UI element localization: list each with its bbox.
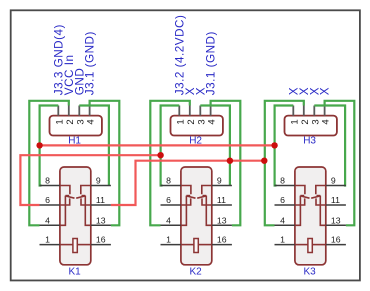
relay K3 pole A contact bar	[300, 195, 304, 197]
svg-text:13: 13	[96, 215, 106, 225]
svg-text:16: 16	[217, 235, 227, 245]
wire net2: K1.6 to H2.1/K2.8	[20, 155, 160, 205]
relay K1 coil leads (pins 1,16)	[60, 244, 73, 246]
relay K3 pole B contact bar	[317, 195, 321, 197]
connector H2 pin 2 stub	[189, 106, 191, 116]
svg-text:K2: K2	[189, 266, 202, 277]
svg-text:11: 11	[331, 195, 340, 205]
connector H2 pin 3 stub	[199, 106, 201, 116]
relay K3 pin 6	[275, 204, 295, 206]
relay K3 pole B throw arm (pin 13)	[320, 196, 326, 226]
svg-text:6: 6	[166, 195, 171, 205]
wire H1.4 to K1.13	[90, 101, 120, 226]
svg-text:8: 8	[166, 176, 171, 186]
wire net3: K1.11 to K2.9 and K3.4	[111, 161, 264, 205]
connector H3 pin 2 stub	[303, 106, 305, 116]
junction at net2/H2.1	[157, 152, 163, 158]
relay K3 pin 8	[275, 185, 295, 187]
relay K1 pole B throw arm (pin 11)	[81, 198, 91, 205]
relay K2 pin 16	[212, 244, 232, 246]
svg-text:J3.1 (GND): J3.1 (GND)	[205, 31, 218, 95]
svg-text:1: 1	[289, 119, 300, 124]
svg-text:8: 8	[280, 176, 285, 186]
svg-text:4: 4	[321, 119, 332, 124]
svg-text:13: 13	[217, 215, 227, 225]
relay K3 pole A throw arm (pin 6)	[295, 198, 305, 205]
relay K2 pole B throw arm (pin 13)	[206, 196, 212, 226]
svg-text:11: 11	[96, 195, 105, 205]
svg-text:K1: K1	[68, 266, 81, 277]
svg-text:11: 11	[217, 195, 226, 205]
relay K3 pin 9	[326, 185, 346, 187]
relay K1 pole B common arm (pin 9)	[81, 186, 91, 195]
svg-text:K3: K3	[303, 266, 316, 277]
connector H1 pin 4 stub	[89, 106, 91, 116]
relay K1 pin 6	[40, 204, 60, 206]
svg-text:2: 2	[186, 119, 197, 124]
relay K2 pin 13	[212, 224, 232, 226]
relay K1 pole A contact bar	[65, 195, 69, 197]
relay K2 pole A throw arm (pin 4)	[181, 196, 187, 226]
relay K1 body	[60, 167, 91, 265]
junction at net1/H3.1	[271, 142, 277, 148]
svg-text:16: 16	[96, 235, 106, 245]
svg-text:6: 6	[45, 195, 50, 205]
relay K1 pin 11	[91, 204, 111, 206]
relay K1 pole B contact bar	[82, 195, 86, 197]
relay K2 pole B throw arm (pin 11)	[202, 198, 212, 205]
svg-text:1: 1	[54, 119, 65, 124]
svg-text:8: 8	[45, 176, 50, 186]
svg-text:1: 1	[175, 119, 186, 124]
wire H3.3 to K3.9	[314, 106, 345, 186]
junction at net3/K3.4	[261, 158, 267, 164]
svg-text:X: X	[319, 87, 332, 95]
wire H3.1 to K3.8	[275, 106, 294, 186]
svg-text:4: 4	[280, 215, 285, 225]
connector H2 body	[171, 116, 223, 136]
svg-text:J3.2 (4.2VDC): J3.2 (4.2VDC)	[173, 15, 186, 96]
svg-text:9: 9	[96, 176, 101, 186]
relay K1 pin 1	[40, 244, 60, 246]
svg-text:9: 9	[217, 176, 222, 186]
relay K2 pole A throw arm (pin 6)	[181, 198, 191, 205]
connector H1 pin 2 stub	[68, 106, 70, 116]
connector H3 pin 1 stub	[292, 106, 294, 116]
connector H3 pin 3 stub	[313, 106, 315, 116]
wire H1.2 to K1.4	[29, 101, 69, 226]
svg-text:16: 16	[331, 235, 341, 245]
wire H2.4 to K2.13	[211, 101, 241, 226]
svg-text:1: 1	[166, 235, 171, 245]
svg-text:2: 2	[65, 119, 76, 124]
relay K2 pin 6	[161, 204, 181, 206]
relay K2 coil leads (pins 1,16)	[181, 244, 194, 246]
relay K1 pin 9	[91, 185, 111, 187]
svg-text:H3: H3	[303, 136, 316, 147]
svg-text:4: 4	[207, 119, 218, 124]
svg-text:J3.1 (GND): J3.1 (GND)	[84, 31, 97, 95]
relay K3 pin 13	[326, 224, 346, 226]
connector H2 pin 4 stub	[210, 106, 212, 116]
relay K3 pin 1	[275, 244, 295, 246]
relay K3 pin 4	[275, 224, 295, 226]
relay K2 pole B contact bar	[203, 195, 207, 197]
junction at net1/H1.1	[36, 142, 42, 148]
relay K1 pole B lever	[76, 196, 85, 198]
relay K2 pole A common arm (pin 8)	[181, 186, 191, 195]
relay K2 pole A contact bar	[186, 195, 190, 197]
wire H3.4 to K3.13	[325, 101, 355, 226]
relay K2 body	[181, 167, 212, 265]
svg-text:2: 2	[300, 119, 311, 124]
wire H2.3 to K2.9	[200, 106, 230, 186]
relay K2 pin 9	[212, 185, 232, 187]
relay K1 pin 4	[40, 224, 60, 226]
relay K1 pole A throw arm (pin 6)	[60, 198, 70, 205]
connector H3 pin 4 stub	[324, 106, 326, 116]
junction at net3/K2.9	[227, 158, 233, 164]
relay K2 pin 1	[161, 244, 181, 246]
svg-text:1: 1	[45, 235, 50, 245]
relay K3 coil	[308, 239, 312, 253]
wire H2.2 to K2.4	[150, 101, 190, 226]
relay K2 pole B common arm (pin 9)	[202, 186, 212, 195]
relay K3 pole A throw arm (pin 4)	[295, 196, 301, 226]
relay K3 pole B common arm (pin 9)	[316, 186, 326, 195]
relay K3 pole A lever	[300, 196, 309, 198]
relay K3 body	[295, 167, 326, 265]
relay K3 pole A common arm (pin 8)	[295, 186, 305, 195]
relay K1 pin 8	[40, 185, 60, 187]
wire H3.2 to K3.4	[265, 101, 304, 226]
relay K3 pin 11	[326, 204, 346, 206]
svg-text:9: 9	[331, 176, 336, 186]
relay K1 pole B throw arm (pin 13)	[85, 196, 91, 226]
svg-text:4: 4	[166, 215, 171, 225]
svg-text:6: 6	[280, 195, 285, 205]
relay K1 pole A lever	[65, 196, 74, 198]
wire H1.1 to K1.8	[40, 106, 59, 186]
relay K2 coil	[194, 239, 198, 253]
wire net1: H1.1/K1.8 to H3.1/K3.8	[40, 144, 275, 146]
relay K3 pole B throw arm (pin 11)	[316, 198, 326, 205]
relay K2 pole B lever	[197, 196, 206, 198]
relay K2 pole A lever	[186, 196, 195, 198]
wire H1.3 to K1.9	[79, 106, 109, 186]
relay K3 pin 16	[326, 244, 346, 246]
wire H2.1 to K2.8	[161, 106, 180, 186]
svg-text:13: 13	[331, 215, 341, 225]
connector H3 body	[285, 116, 337, 136]
relay K1 pin 13	[91, 224, 111, 226]
relay K3 pole B lever	[311, 196, 320, 198]
relay K1 coil	[73, 239, 77, 253]
svg-text:4: 4	[45, 215, 50, 225]
relay K1 pin 16	[91, 244, 111, 246]
relay K2 pin 4	[161, 224, 181, 226]
connector H1 pin 3 stub	[78, 106, 80, 116]
relay K3 coil leads (pins 1,16)	[295, 244, 308, 246]
connector H1 pin 1 stub	[57, 106, 59, 116]
relay K1 pole A common arm (pin 8)	[60, 186, 70, 195]
svg-text:4: 4	[86, 119, 97, 124]
relay K2 pin 8	[161, 185, 181, 187]
relay K2 pin 11	[212, 204, 232, 206]
connector H2 pin 1 stub	[178, 106, 180, 116]
connector H1 body	[50, 116, 102, 136]
svg-text:1: 1	[280, 235, 285, 245]
relay K1 pole A throw arm (pin 4)	[60, 196, 66, 226]
